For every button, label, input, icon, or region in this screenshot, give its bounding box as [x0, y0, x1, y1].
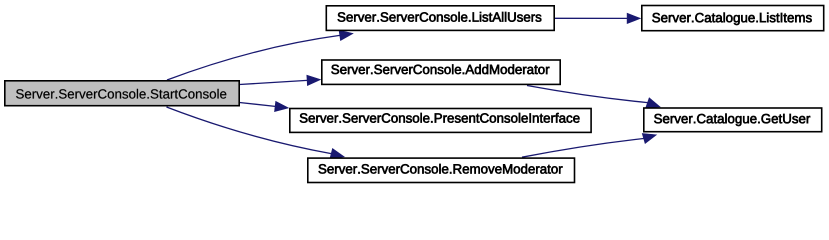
edge AddModerator->GetUser	[527, 86, 660, 108]
edge StartConsole->PresentConsoleInterface	[240, 101, 289, 111]
node PresentConsoleInterface	[290, 109, 591, 133]
edge ListAllUsers->ListItems	[555, 13, 641, 23]
edge StartConsole->AddModerator	[240, 75, 321, 85]
node StartConsole	[5, 81, 239, 106]
node RemoveModerator	[308, 158, 575, 182]
edge StartConsole->RemoveModerator	[167, 107, 345, 159]
node AddModerator	[322, 60, 560, 84]
node ListAllUsers	[326, 6, 554, 31]
edge StartConsole->ListAllUsers	[167, 30, 353, 80]
node ListItems	[642, 6, 824, 31]
edge RemoveModerator->GetUser	[522, 134, 657, 158]
node GetUser	[644, 108, 822, 132]
